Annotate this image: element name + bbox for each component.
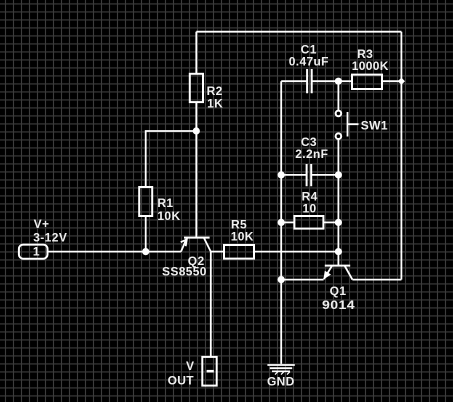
resistor R4 (281, 221, 294, 223)
svg-text:SS8550: SS8550 (162, 265, 207, 279)
connector V OUT terminal (202, 357, 216, 386)
node junction R2/R1/Q2-base (193, 127, 200, 134)
transistor Q1 collector (345, 266, 353, 280)
wire Q1 collector to right rail (352, 279, 401, 281)
node junction C1/R3/SW1 (335, 78, 342, 85)
svg-text:Q1: Q1 (330, 284, 347, 298)
svg-text:1K: 1K (207, 97, 223, 111)
svg-text:1: 1 (33, 245, 40, 259)
wire junction to R3 (338, 80, 352, 82)
transistor Q1 emitter with filled arrow (324, 266, 332, 279)
node junction R4 left (278, 219, 285, 226)
svg-text:9014: 9014 (322, 298, 355, 312)
node junction R5/Q1 base/SW net (335, 248, 342, 255)
svg-text:GND: GND (267, 374, 295, 388)
wire SW net vertical to Q1 base junction (337, 175, 339, 252)
wire R5 to Q1 base junction (254, 251, 338, 253)
svg-text:1000K: 1000K (352, 59, 389, 73)
transistor Q2 collector (204, 238, 211, 252)
ground symbol (267, 364, 294, 366)
node junction C3 right (335, 171, 342, 178)
wire Q2 collector to R5 (211, 251, 224, 253)
wire main horizontal from V+ connector to Q2 emitter (48, 251, 182, 253)
svg-text:V: V (186, 359, 194, 373)
node junction C3 left (278, 171, 285, 178)
wire R2 bottom to junction (195, 102, 197, 131)
svg-text:10K: 10K (157, 209, 180, 223)
transistor Q2 base bar (184, 237, 210, 239)
wire ground net vertical C1-left to GND (280, 81, 282, 364)
connector P1 V+ (19, 245, 48, 259)
wire junction to SW1 top (337, 81, 339, 110)
wire right vertical rail (400, 32, 402, 280)
wire R2 top lead (195, 32, 197, 74)
wire junction to R1 top (146, 131, 197, 187)
wire Q2 collector to V OUT terminal (210, 252, 212, 357)
wire Q1 emitter to ground net (281, 279, 323, 281)
svg-text:10K: 10K (231, 229, 254, 243)
wire top horizontal from R2 top to right rail (196, 31, 401, 33)
svg-text:2.2nF: 2.2nF (295, 147, 328, 161)
resistor R5 (224, 245, 254, 259)
node junction R4 right (335, 219, 342, 226)
svg-text:SW1: SW1 (361, 118, 388, 132)
switch SW1 (336, 111, 342, 117)
capacitor C1 (281, 80, 307, 82)
transistor Q1 base bar (325, 265, 350, 267)
svg-text:R1: R1 (157, 196, 173, 210)
minus pin mark (207, 370, 214, 373)
resistor R2 (190, 74, 203, 102)
node junction emitter/ground net (278, 276, 285, 283)
svg-text:0.47uF: 0.47uF (289, 54, 329, 68)
svg-text:V+: V+ (34, 217, 50, 231)
svg-text:OUT: OUT (168, 374, 195, 388)
svg-text:10: 10 (302, 202, 316, 216)
resistor R3 (352, 75, 382, 89)
node junction R1/main wire (142, 248, 149, 255)
node diamond junction R3/right rail (398, 78, 405, 85)
wire R1 bottom to main rail (145, 216, 147, 252)
wire SW1 bottom to C3 junction (337, 139, 339, 175)
wire R3 to right rail (382, 80, 401, 82)
svg-text:3-12V: 3-12V (33, 230, 67, 244)
transistor Q2 emitter with arrow (181, 238, 187, 252)
resistor R1 (139, 187, 152, 216)
wire Q1 base lead (337, 252, 339, 266)
capacitor C3 (281, 174, 306, 176)
wire Q2 base lead vertical (195, 131, 197, 238)
